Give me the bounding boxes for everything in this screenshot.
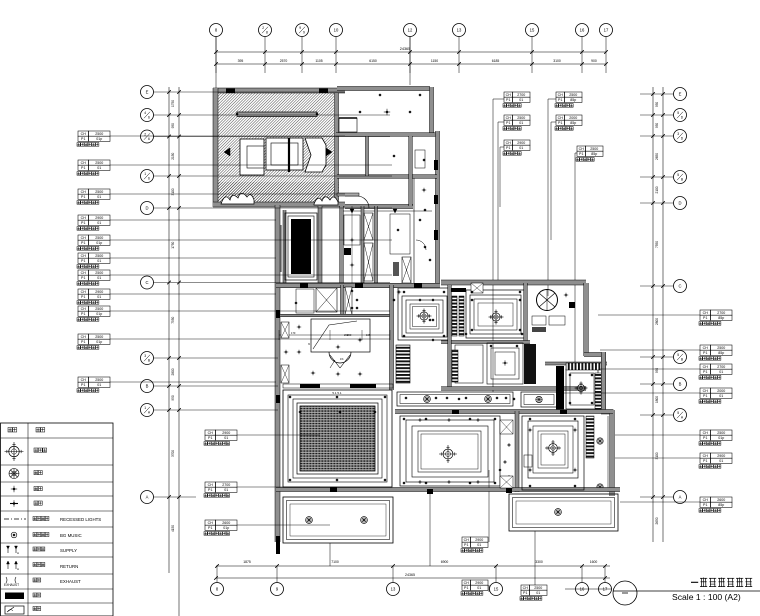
svg-text:85p: 85p xyxy=(570,98,576,102)
svg-text:Scale 1 : 100 (A2): Scale 1 : 100 (A2) xyxy=(672,592,741,602)
svg-text:CH: CH xyxy=(506,93,512,97)
svg-text:01: 01 xyxy=(224,436,228,440)
svg-text:CH: CH xyxy=(208,521,214,525)
svg-text:D: D xyxy=(145,206,148,211)
svg-text:01: 01 xyxy=(97,295,101,299)
svg-text:2900: 2900 xyxy=(95,290,103,294)
svg-text:RECESSED LIGHTS: RECESSED LIGHTS xyxy=(60,517,101,522)
svg-text:7550: 7550 xyxy=(655,241,659,248)
svg-text:CH: CH xyxy=(81,378,87,382)
svg-text:2000: 2000 xyxy=(717,389,725,393)
svg-text:6: 6 xyxy=(148,137,150,141)
svg-text:2500: 2500 xyxy=(95,271,103,275)
svg-text:CH: CH xyxy=(208,483,214,487)
svg-text:CH: CH xyxy=(506,116,512,120)
svg-text:2150: 2150 xyxy=(171,152,175,159)
svg-text:B: B xyxy=(679,382,682,387)
svg-text:CH: CH xyxy=(81,216,87,220)
svg-text:2500: 2500 xyxy=(517,116,525,120)
svg-text:01: 01 xyxy=(97,383,101,387)
svg-text:2500: 2500 xyxy=(95,161,103,165)
svg-text:CH: CH xyxy=(703,454,709,458)
svg-text:2650: 2650 xyxy=(655,517,659,524)
svg-text:P1: P1 xyxy=(81,383,85,387)
svg-text:2500: 2500 xyxy=(95,236,103,240)
svg-text:01: 01 xyxy=(519,98,523,102)
svg-text:P1: P1 xyxy=(81,312,85,316)
svg-text:6150: 6150 xyxy=(369,59,377,63)
svg-text:01p: 01p xyxy=(718,436,724,440)
svg-text:A: A xyxy=(679,495,682,500)
svg-text:85p: 85p xyxy=(718,503,724,507)
svg-text:2570: 2570 xyxy=(280,59,288,63)
svg-text:P1: P1 xyxy=(506,146,510,150)
svg-text:170: 170 xyxy=(291,331,296,335)
svg-text:2: 2 xyxy=(262,26,264,30)
svg-text:2700: 2700 xyxy=(517,93,525,97)
svg-text:16: 16 xyxy=(580,28,585,33)
svg-text:200: 200 xyxy=(347,333,352,337)
svg-text:P1: P1 xyxy=(558,98,562,102)
svg-text:2000: 2000 xyxy=(569,116,577,120)
svg-text:8: 8 xyxy=(266,31,268,35)
svg-text:165: 165 xyxy=(366,333,371,337)
svg-text:2500: 2500 xyxy=(590,147,598,151)
svg-text:01: 01 xyxy=(719,370,723,374)
svg-text:85p: 85p xyxy=(591,152,597,156)
svg-text:P1: P1 xyxy=(703,394,707,398)
svg-text:P1: P1 xyxy=(81,221,85,225)
svg-text:CH: CH xyxy=(81,307,87,311)
svg-text:CH: CH xyxy=(81,290,87,294)
svg-text:C: C xyxy=(678,284,681,289)
svg-text:01: 01 xyxy=(477,543,481,547)
svg-text:950: 950 xyxy=(655,123,659,129)
svg-text:01: 01 xyxy=(97,166,101,170)
svg-text:A: A xyxy=(146,495,149,500)
svg-text:85p: 85p xyxy=(570,121,576,125)
svg-text:CH: CH xyxy=(703,365,709,369)
svg-text:24365: 24365 xyxy=(400,47,411,51)
svg-text:1750: 1750 xyxy=(171,100,175,107)
svg-text:2900: 2900 xyxy=(95,216,103,220)
svg-text:15: 15 xyxy=(494,587,499,592)
svg-text:P1: P1 xyxy=(81,276,85,280)
svg-text:950: 950 xyxy=(655,102,659,108)
svg-text:P1: P1 xyxy=(703,436,707,440)
svg-text:13: 13 xyxy=(391,587,396,592)
svg-text:P1: P1 xyxy=(464,543,468,547)
svg-text:5: 5 xyxy=(677,353,679,357)
svg-text:CH: CH xyxy=(558,116,564,120)
svg-text:P1: P1 xyxy=(703,370,707,374)
svg-text:CH: CH xyxy=(81,335,87,339)
svg-text:P1: P1 xyxy=(703,316,707,320)
svg-text:01: 01 xyxy=(536,591,540,595)
svg-text:01: 01 xyxy=(97,195,101,199)
svg-text:9: 9 xyxy=(299,26,301,30)
svg-text:1600: 1600 xyxy=(590,560,598,564)
svg-text:2500: 2500 xyxy=(534,586,542,590)
svg-text:P1: P1 xyxy=(558,121,562,125)
svg-text:01: 01 xyxy=(519,121,523,125)
svg-text:2500: 2500 xyxy=(569,93,577,97)
svg-text:85p: 85p xyxy=(718,316,724,320)
svg-text:P1: P1 xyxy=(208,488,212,492)
svg-text:2500: 2500 xyxy=(95,190,103,194)
svg-text:6: 6 xyxy=(148,177,150,181)
svg-text:6900: 6900 xyxy=(441,560,449,564)
svg-text:5.1 5.1: 5.1 5.1 xyxy=(332,391,342,395)
svg-text:P1: P1 xyxy=(81,166,85,170)
svg-text:CH: CH xyxy=(506,141,512,145)
svg-text:1: 1 xyxy=(144,406,146,410)
svg-text:CH: CH xyxy=(703,346,709,350)
svg-text:85p: 85p xyxy=(718,351,724,355)
svg-text:1750: 1750 xyxy=(171,241,175,248)
svg-text:2900: 2900 xyxy=(517,141,525,145)
svg-text:CH: CH xyxy=(464,581,470,585)
svg-text:2800: 2800 xyxy=(655,318,659,325)
svg-text:395: 395 xyxy=(238,59,244,63)
svg-text:3: 3 xyxy=(144,354,146,358)
svg-text:2500: 2500 xyxy=(95,335,103,339)
svg-text:1105: 1105 xyxy=(315,59,322,63)
svg-text:2650: 2650 xyxy=(655,153,659,160)
svg-text:7100: 7100 xyxy=(331,560,339,564)
svg-text:3: 3 xyxy=(677,132,679,136)
svg-text:6: 6 xyxy=(148,116,150,120)
svg-text:P1: P1 xyxy=(703,351,707,355)
svg-text:2900: 2900 xyxy=(717,454,725,458)
svg-text:1800: 1800 xyxy=(655,396,659,403)
svg-text:CH: CH xyxy=(464,538,470,542)
svg-text:2900: 2900 xyxy=(222,431,230,435)
svg-text:2700: 2700 xyxy=(222,483,230,487)
svg-text:2500: 2500 xyxy=(717,431,725,435)
svg-text:01: 01 xyxy=(97,259,101,263)
svg-text:2900: 2900 xyxy=(475,538,483,542)
svg-text:2500: 2500 xyxy=(95,254,103,258)
svg-text:P1: P1 xyxy=(703,503,707,507)
svg-text:B: B xyxy=(146,384,149,389)
svg-text:3100: 3100 xyxy=(553,59,561,63)
svg-text:E: E xyxy=(146,90,149,95)
svg-text:17: 17 xyxy=(604,28,609,33)
svg-text:A: A xyxy=(17,551,19,555)
svg-text:SUPPLY: SUPPLY xyxy=(60,548,77,553)
svg-text:P1: P1 xyxy=(81,241,85,245)
svg-text:2500: 2500 xyxy=(95,307,103,311)
svg-text:3300: 3300 xyxy=(535,560,543,564)
svg-text:P1: P1 xyxy=(208,436,212,440)
svg-text:01p: 01p xyxy=(96,312,102,316)
svg-text:10: 10 xyxy=(334,28,339,33)
svg-text:2800: 2800 xyxy=(171,368,175,375)
svg-text:P1: P1 xyxy=(81,340,85,344)
svg-text:3100: 3100 xyxy=(171,188,175,195)
svg-text:P1: P1 xyxy=(579,152,583,156)
svg-text:CH: CH xyxy=(81,236,87,240)
svg-text:01p: 01p xyxy=(96,241,102,245)
svg-text:01p: 01p xyxy=(223,526,229,530)
svg-text:2100: 2100 xyxy=(655,186,659,193)
svg-text:RETURN: RETURN xyxy=(60,564,78,569)
svg-text:CH: CH xyxy=(703,311,709,315)
svg-text:EXHAUST: EXHAUST xyxy=(4,583,19,587)
svg-text:P1: P1 xyxy=(81,137,85,141)
svg-text:5: 5 xyxy=(677,173,679,177)
svg-text:01: 01 xyxy=(224,488,228,492)
svg-text:C: C xyxy=(145,280,148,285)
svg-text:P1: P1 xyxy=(81,295,85,299)
svg-text:CH: CH xyxy=(703,498,709,502)
svg-text:P1: P1 xyxy=(208,526,212,530)
svg-text:01p: 01p xyxy=(96,340,102,344)
svg-text:CH: CH xyxy=(523,586,529,590)
svg-text:15: 15 xyxy=(530,28,535,33)
svg-text:CH: CH xyxy=(208,431,214,435)
svg-text:01: 01 xyxy=(519,146,523,150)
svg-text:1150: 1150 xyxy=(431,59,438,63)
svg-text:A: A xyxy=(17,567,19,571)
svg-text:2500: 2500 xyxy=(95,378,103,382)
svg-text:9: 9 xyxy=(303,31,305,35)
svg-text:CH: CH xyxy=(81,132,87,136)
svg-text:01: 01 xyxy=(477,586,481,590)
svg-text:6185: 6185 xyxy=(492,59,500,63)
svg-text:CH: CH xyxy=(81,254,87,258)
svg-text:900: 900 xyxy=(591,59,597,63)
svg-text:P1: P1 xyxy=(81,195,85,199)
svg-text:950: 950 xyxy=(171,395,175,401)
svg-text:12: 12 xyxy=(408,28,413,33)
svg-text:P1: P1 xyxy=(523,591,527,595)
svg-text:CH: CH xyxy=(703,389,709,393)
svg-text:P1: P1 xyxy=(506,121,510,125)
svg-text:CH: CH xyxy=(579,147,585,151)
svg-text:CH: CH xyxy=(703,431,709,435)
svg-text:2700: 2700 xyxy=(717,311,725,315)
svg-text:1875: 1875 xyxy=(243,560,251,564)
svg-text:4150: 4150 xyxy=(171,525,175,532)
svg-text:1: 1 xyxy=(144,172,146,176)
svg-text:13: 13 xyxy=(457,28,462,33)
svg-text:01: 01 xyxy=(719,394,723,398)
svg-text:01: 01 xyxy=(719,459,723,463)
svg-text:2900: 2900 xyxy=(475,581,483,585)
svg-text:950: 950 xyxy=(171,123,175,129)
svg-text:5: 5 xyxy=(677,411,679,415)
svg-text:2600: 2600 xyxy=(717,498,725,502)
svg-text:3100: 3100 xyxy=(655,452,659,459)
svg-text:7550: 7550 xyxy=(171,316,175,323)
svg-text:2600: 2600 xyxy=(222,521,230,525)
svg-text:4: 4 xyxy=(144,111,146,115)
svg-text:24365: 24365 xyxy=(405,573,415,577)
svg-text:5: 5 xyxy=(677,111,679,115)
svg-text:950: 950 xyxy=(655,368,659,374)
svg-text:2700: 2700 xyxy=(717,365,725,369)
svg-text:P1: P1 xyxy=(464,586,468,590)
svg-text:3700: 3700 xyxy=(171,450,175,457)
svg-text:P1: P1 xyxy=(506,98,510,102)
svg-text:CH: CH xyxy=(81,271,87,275)
svg-text:01: 01 xyxy=(97,221,101,225)
svg-text:BG MUSIC: BG MUSIC xyxy=(60,533,82,538)
svg-text:E: E xyxy=(679,92,682,97)
svg-text:P1: P1 xyxy=(703,459,707,463)
svg-text:2500: 2500 xyxy=(95,132,103,136)
svg-text:01p: 01p xyxy=(96,137,102,141)
svg-text:01: 01 xyxy=(97,276,101,280)
svg-text:CH: CH xyxy=(81,190,87,194)
svg-text:EXHAUST: EXHAUST xyxy=(60,579,81,584)
svg-text:CH: CH xyxy=(81,161,87,165)
svg-text:CH: CH xyxy=(558,93,564,97)
svg-text:D: D xyxy=(678,201,681,206)
svg-text:2500: 2500 xyxy=(717,346,725,350)
svg-text:P1: P1 xyxy=(81,259,85,263)
